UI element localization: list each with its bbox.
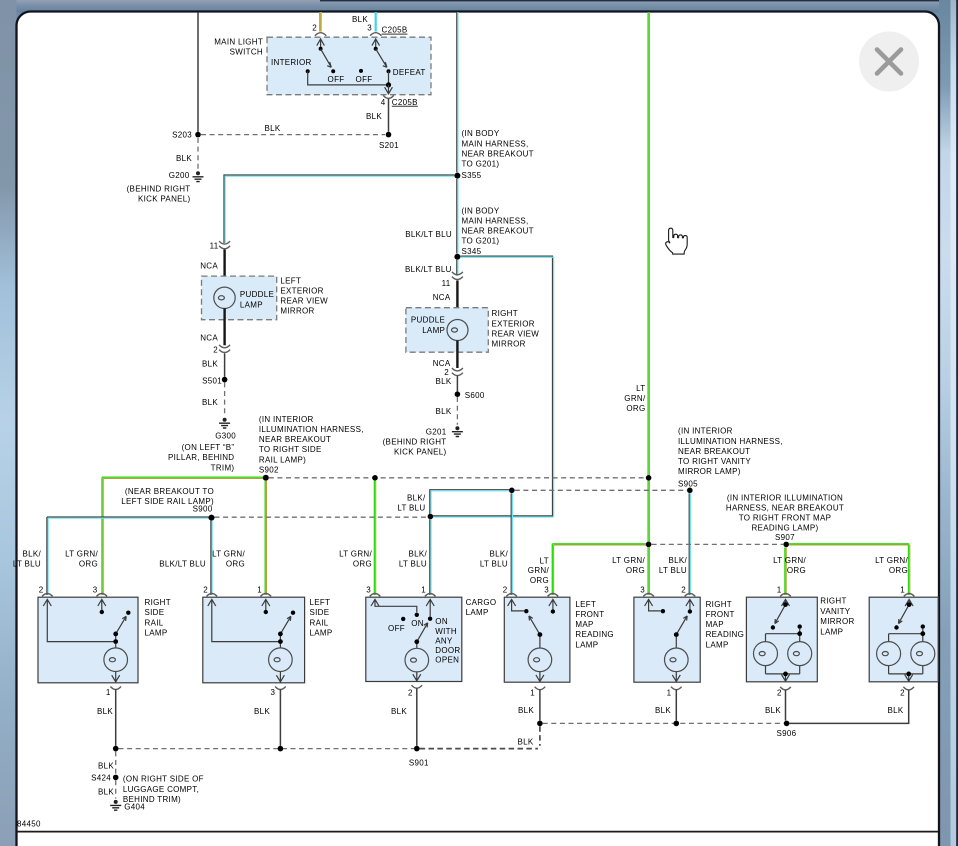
node S501: [222, 377, 228, 383]
svg-text:LAMP: LAMP: [820, 628, 843, 637]
svg-text:NEAR BREAKOUT: NEAR BREAKOUT: [462, 149, 534, 158]
top bar: [0, 0, 958, 13]
svg-text:NEAR BREAKOUT: NEAR BREAKOUT: [259, 435, 331, 444]
connector box5 pin1: [671, 687, 682, 690]
lamp left puddle: [214, 287, 235, 308]
svg-text:BLK/LT BLU: BLK/LT BLU: [159, 560, 206, 569]
right window edge: [956, 0, 958, 846]
svg-text:READING: READING: [706, 630, 745, 639]
svg-text:BLK: BLK: [98, 762, 114, 771]
svg-text:ORG: ORG: [787, 566, 806, 575]
svg-text:OPEN: OPEN: [435, 656, 459, 665]
wire BLK/LT BLU S905 down to box5 pin2: [688, 493, 690, 595]
svg-text:S345: S345: [462, 247, 482, 256]
svg-text:(BEHIND RIGHT: (BEHIND RIGHT: [127, 184, 191, 193]
svg-text:LT BLU: LT BLU: [397, 504, 425, 513]
svg-text:MIRROR: MIRROR: [820, 617, 854, 626]
connector box6 pin2: [780, 687, 791, 690]
svg-text:ILLUMINATION HARNESS,: ILLUMINATION HARNESS,: [678, 437, 783, 446]
svg-text:HARNESS, NEAR BREAKOUT: HARNESS, NEAR BREAKOUT: [726, 503, 844, 512]
svg-text:ORG: ORG: [353, 560, 372, 569]
svg-text:EXTERIOR: EXTERIOR: [280, 287, 323, 296]
svg-text:3: 3: [367, 23, 372, 32]
svg-text:(ON RIGHT SIDE OF: (ON RIGHT SIDE OF: [123, 775, 204, 784]
svg-text:PUDDLE: PUDDLE: [411, 315, 445, 324]
box2 left side rail lamp: [203, 597, 305, 683]
node S902: [263, 475, 269, 481]
wire dashed S900 to BLK/LT BLU node: [215, 516, 428, 518]
node cargo green tap: [372, 475, 378, 481]
connector box4 pin1: [535, 687, 546, 690]
svg-text:11: 11: [210, 242, 219, 251]
svg-text:BLK: BLK: [97, 707, 113, 716]
svg-text:1: 1: [106, 688, 111, 697]
svg-text:2: 2: [503, 586, 508, 595]
wire LT GRN/ORG S902 to left: [102, 477, 263, 595]
node box4 tap: [537, 721, 543, 727]
svg-text:S600: S600: [465, 391, 485, 400]
node S900: [209, 515, 215, 521]
svg-text:BLK: BLK: [518, 706, 534, 715]
svg-text:LT BLU: LT BLU: [480, 560, 508, 569]
svg-text:2: 2: [681, 586, 686, 595]
ground G201: [452, 426, 463, 436]
wire S203 to G200 dashed: [197, 138, 199, 170]
wire inside switch to pin 4: [308, 71, 389, 85]
node box5 tap: [674, 721, 680, 727]
wire dashed S501 to G300: [224, 382, 226, 415]
wire BLK/LT BLU down to box4 pin2: [510, 493, 512, 595]
lamps box7: [877, 642, 901, 666]
wire LT GRN/ORG S907 down to box6 pin1: [784, 547, 786, 595]
svg-text:BEHIND TRIM): BEHIND TRIM): [123, 795, 181, 804]
wire LT GRN/ORG S907 left segment: [552, 544, 646, 595]
svg-text:3: 3: [640, 586, 645, 595]
wire BLK/LT BLU S345 branch right and down: [460, 256, 552, 516]
node S345: [454, 254, 460, 260]
svg-text:(ON LEFT “B”: (ON LEFT “B”: [182, 443, 235, 452]
diagram bottom rule: [17, 831, 939, 833]
svg-text:2: 2: [777, 689, 782, 698]
switch DEFEAT: [372, 39, 380, 47]
node box1 tap: [113, 746, 119, 752]
svg-text:CARGO: CARGO: [466, 598, 497, 607]
lamp right puddle: [447, 320, 468, 341]
svg-text:KICK PANEL): KICK PANEL): [138, 194, 191, 203]
box6 right vanity mirror lamp: [746, 597, 817, 682]
svg-text:NEAR BREAKOUT: NEAR BREAKOUT: [678, 447, 750, 456]
svg-text:PILLAR, BEHIND: PILLAR, BEHIND: [168, 453, 234, 462]
wire dashed green trunk to S907: [652, 543, 784, 545]
connector box1 pin1: [110, 687, 121, 690]
node on green trunk at S907 line: [646, 542, 652, 548]
svg-text:FRONT: FRONT: [706, 610, 735, 619]
svg-text:LAMP: LAMP: [706, 640, 729, 649]
svg-text:READING: READING: [575, 630, 614, 639]
wire dashed S424 to G404: [115, 780, 117, 798]
svg-text:C205B: C205B: [392, 98, 418, 107]
svg-text:S501: S501: [202, 376, 222, 385]
inline connector pin 11 left mirror: [219, 241, 230, 249]
connector pin 2 right mirror: [452, 368, 463, 376]
svg-text:MAP: MAP: [706, 620, 724, 629]
right page strip: [939, 0, 951, 846]
svg-text:LT: LT: [636, 384, 645, 393]
svg-text:TRIM): TRIM): [211, 463, 235, 472]
svg-text:LAMP: LAMP: [466, 608, 489, 617]
node junction to S905: [509, 488, 515, 494]
node S905: [687, 488, 693, 494]
svg-text:LAMP: LAMP: [145, 629, 168, 638]
svg-text:(IN INTERIOR ILLUMINATION: (IN INTERIOR ILLUMINATION: [727, 493, 843, 502]
svg-text:BLK: BLK: [202, 360, 218, 369]
svg-text:RIGHT: RIGHT: [492, 309, 518, 318]
wire BLK box4 pin1 down: [539, 690, 541, 721]
svg-text:(IN BODY: (IN BODY: [462, 206, 500, 215]
node S203: [195, 132, 201, 138]
wire LT GRN/ORG trunk: [647, 12, 649, 544]
wire dashed S901 splice line: [119, 748, 415, 750]
svg-text:3: 3: [271, 688, 276, 697]
svg-text:BLK: BLK: [887, 706, 903, 715]
svg-text:S906: S906: [777, 729, 797, 738]
wire LT BLU into pin 3: [375, 12, 377, 32]
node S201: [386, 132, 392, 138]
wire dashed S600 to G201: [456, 397, 458, 425]
svg-text:C205B: C205B: [382, 26, 408, 35]
left puddle lamp box: [202, 276, 277, 320]
svg-text:REAR VIEW: REAR VIEW: [492, 329, 540, 338]
svg-text:LT GRN/: LT GRN/: [65, 550, 98, 559]
svg-text:RIGHT: RIGHT: [145, 598, 171, 607]
node on green trunk at S902 line: [646, 475, 652, 481]
svg-text:(IN BODY: (IN BODY: [462, 129, 500, 138]
wire green S902 down to box2 pin1: [264, 481, 266, 595]
wire BLK vertical to S203: [197, 12, 199, 132]
svg-text:ON: ON: [411, 619, 424, 628]
svg-text:LT BLU: LT BLU: [659, 566, 687, 575]
svg-text:VANITY: VANITY: [820, 607, 850, 616]
svg-text:READING LAMP): READING LAMP): [751, 524, 818, 533]
svg-text:2: 2: [39, 586, 44, 595]
node S901: [414, 746, 420, 752]
svg-text:TO RIGHT SIDE: TO RIGHT SIDE: [259, 445, 322, 454]
right puddle lamp box: [406, 308, 488, 353]
svg-text:GRN/: GRN/: [528, 566, 550, 575]
svg-text:BLK/: BLK/: [22, 550, 41, 559]
svg-text:REAR VIEW: REAR VIEW: [280, 297, 328, 306]
wire BLK/LT BLU node down to box3 pin1: [429, 519, 431, 595]
svg-text:ORG: ORG: [530, 576, 549, 585]
svg-text:4: 4: [381, 98, 386, 107]
svg-text:2: 2: [312, 23, 317, 32]
wire green down to box3 pin3: [373, 481, 375, 595]
wire into right puddle lamp: [456, 281, 458, 320]
wire BLK/LT BLU trunk top: [456, 12, 458, 172]
svg-text:ANY: ANY: [435, 636, 453, 645]
svg-text:WITH: WITH: [435, 627, 457, 636]
svg-text:MIRROR: MIRROR: [492, 340, 526, 349]
svg-text:2: 2: [408, 688, 413, 697]
lamp box5: [665, 648, 689, 672]
svg-text:BLK/LT BLU: BLK/LT BLU: [405, 265, 452, 274]
wire dashed S906 splice line: [543, 722, 784, 724]
wire dashed to S905: [515, 489, 687, 491]
inline connector pin 11 right mirror: [452, 272, 463, 280]
svg-text:S355: S355: [462, 171, 482, 180]
svg-text:NCA: NCA: [433, 359, 451, 368]
svg-text:BLK/: BLK/: [668, 556, 687, 565]
svg-text:BLK: BLK: [765, 706, 781, 715]
svg-text:RAIL: RAIL: [310, 618, 329, 627]
svg-text:BLK/: BLK/: [489, 550, 508, 559]
svg-text:11: 11: [442, 279, 451, 288]
svg-text:BLK: BLK: [517, 737, 533, 746]
svg-text:BLK: BLK: [391, 707, 407, 716]
svg-text:BLK: BLK: [352, 15, 368, 24]
connector box2 pin3: [275, 687, 286, 690]
lamp box4: [528, 648, 552, 672]
svg-text:(NEAR BREAKOUT TO: (NEAR BREAKOUT TO: [125, 487, 214, 496]
svg-text:KICK PANEL): KICK PANEL): [394, 448, 447, 457]
svg-text:RAIL LAMP): RAIL LAMP): [259, 455, 306, 464]
lamp box1: [104, 648, 128, 672]
svg-text:LT GRN/: LT GRN/: [875, 556, 908, 565]
wire teal S900 down to box2 pin2: [210, 521, 212, 595]
box1 right side rail lamp: [38, 597, 138, 683]
node S907: [783, 542, 789, 548]
wire dashed BLK down from box4 tap: [539, 726, 541, 746]
svg-text:BLK: BLK: [655, 706, 671, 715]
svg-text:DOOR: DOOR: [435, 646, 460, 655]
svg-text:RIGHT: RIGHT: [820, 597, 846, 606]
wire BLK/LT BLU S355 to left mirror: [224, 175, 454, 243]
svg-text:NCA: NCA: [200, 262, 218, 271]
main light switch box: [267, 37, 431, 94]
svg-text:TO RIGHT VANITY: TO RIGHT VANITY: [678, 457, 751, 466]
svg-text:LT BLU: LT BLU: [13, 560, 41, 569]
svg-text:NCA: NCA: [433, 293, 451, 302]
svg-text:3: 3: [93, 586, 98, 595]
svg-text:MAIN LIGHT: MAIN LIGHT: [214, 38, 263, 47]
svg-text:BLK/: BLK/: [407, 494, 426, 503]
connector box3 pin2: [412, 685, 423, 688]
svg-text:2: 2: [203, 586, 208, 595]
ground G200: [193, 171, 204, 181]
svg-text:LAMP: LAMP: [422, 326, 445, 335]
svg-text:1: 1: [530, 688, 535, 697]
svg-text:EXTERIOR: EXTERIOR: [492, 319, 535, 328]
wire BLK box2 pin3 down: [279, 690, 281, 746]
svg-text:LT BLU: LT BLU: [399, 560, 427, 569]
svg-text:2: 2: [213, 345, 218, 354]
svg-text:S424: S424: [91, 774, 111, 783]
svg-text:NEAR BREAKOUT: NEAR BREAKOUT: [462, 227, 534, 236]
svg-text:LUGGAGE COMPT,: LUGGAGE COMPT,: [123, 785, 199, 794]
svg-text:MAIN HARNESS,: MAIN HARNESS,: [462, 139, 529, 148]
svg-text:MAIN HARNESS,: MAIN HARNESS,: [462, 217, 529, 226]
svg-text:(BEHIND RIGHT: (BEHIND RIGHT: [383, 437, 447, 446]
wire BLK box7 pin2 down to S906 line: [789, 690, 908, 724]
wire BLK/LT BLU S900 to left: [47, 517, 209, 595]
node S906: [784, 721, 790, 727]
svg-text:(IN INTERIOR: (IN INTERIOR: [259, 415, 314, 424]
wire dashed S902 to green trunk: [269, 477, 645, 479]
svg-text:MAP: MAP: [575, 620, 593, 629]
svg-text:1: 1: [667, 688, 672, 697]
wire BLK box3 pin2 down: [416, 688, 418, 746]
svg-text:DEFEAT: DEFEAT: [393, 68, 426, 77]
svg-text:TO G201): TO G201): [462, 160, 500, 169]
svg-text:ORG: ORG: [626, 566, 645, 575]
svg-text:BLK: BLK: [264, 124, 280, 133]
svg-text:2: 2: [444, 368, 449, 377]
svg-text:LEFT: LEFT: [280, 276, 301, 285]
lamp box2: [269, 648, 293, 672]
svg-text:G201: G201: [426, 427, 447, 436]
connector pin 2 C205B: [315, 33, 326, 36]
svg-text:BLK: BLK: [435, 377, 451, 386]
contact and OFF position: [306, 69, 310, 73]
wire BLK box1 pin1 down: [115, 690, 117, 746]
svg-text:ON: ON: [435, 617, 448, 626]
svg-text:SWITCH: SWITCH: [230, 48, 263, 57]
wire BLK/LT BLU from S345 corner to node: [433, 515, 553, 517]
svg-text:S902: S902: [259, 465, 279, 474]
svg-text:OFF: OFF: [356, 75, 373, 84]
node S355: [454, 173, 460, 179]
svg-text:ORG: ORG: [226, 560, 245, 569]
left page strip: [0, 0, 17, 846]
svg-text:LT GRN/: LT GRN/: [773, 556, 806, 565]
lamp box3: [405, 648, 429, 672]
svg-text:GRN/: GRN/: [624, 394, 646, 403]
svg-text:SIDE: SIDE: [310, 608, 330, 617]
lamps box6: [754, 642, 778, 666]
wire out of left puddle lamp: [223, 308, 225, 345]
svg-text:RAIL: RAIL: [145, 618, 164, 627]
svg-text:BLK: BLK: [202, 398, 218, 407]
svg-text:S907: S907: [775, 533, 795, 542]
svg-text:BLK: BLK: [98, 788, 114, 797]
svg-text:ORG: ORG: [79, 560, 98, 569]
ground G300: [219, 418, 230, 428]
node S424: [113, 775, 119, 781]
svg-text:BLK: BLK: [254, 707, 270, 716]
svg-text:MIRROR LAMP): MIRROR LAMP): [678, 467, 741, 476]
close button: [859, 32, 919, 92]
wire BLK box5 pin1 down: [675, 690, 677, 721]
connector caps row: [42, 594, 107, 597]
wire BLK/LT BLU S345 down to right mirror: [456, 260, 458, 276]
wire into left puddle lamp: [223, 250, 225, 288]
svg-text:S901: S901: [409, 759, 429, 768]
svg-text:INTERIOR: INTERIOR: [271, 58, 312, 67]
box3 cargo lamp: [366, 597, 462, 681]
svg-text:MIRROR: MIRROR: [280, 307, 314, 316]
svg-text:NCA: NCA: [200, 334, 218, 343]
wire BLK/LT BLU S355 to S345: [456, 179, 458, 254]
svg-text:S905: S905: [678, 479, 698, 488]
svg-text:1: 1: [900, 586, 905, 595]
svg-text:BLK/LT BLU: BLK/LT BLU: [405, 230, 452, 239]
node box2 tap: [278, 746, 284, 752]
svg-text:3: 3: [544, 586, 549, 595]
wire dashed BLK box1 tap to S424: [115, 751, 117, 774]
svg-text:BLK: BLK: [366, 112, 382, 121]
svg-text:S203: S203: [172, 131, 192, 140]
svg-text:TO RIGHT FRONT MAP: TO RIGHT FRONT MAP: [739, 514, 832, 523]
svg-text:2: 2: [900, 689, 905, 698]
svg-text:LT: LT: [540, 557, 549, 566]
connector pin 2 left mirror: [219, 345, 230, 353]
svg-text:LAMP: LAMP: [240, 300, 263, 309]
svg-text:LEFT: LEFT: [575, 600, 596, 609]
svg-text:S900: S900: [193, 504, 213, 513]
svg-text:LAMP: LAMP: [310, 629, 333, 638]
svg-text:ORG: ORG: [889, 566, 908, 575]
svg-text:TO G201): TO G201): [462, 237, 500, 246]
mouse cursor: [666, 228, 688, 254]
svg-text:S201: S201: [379, 141, 399, 150]
wire S203 to S201 dashed splice: [201, 134, 385, 136]
wire ORG/LT GRN into pin 2: [319, 12, 321, 32]
connector box7 pin2: [903, 687, 914, 690]
svg-text:LT GRN/: LT GRN/: [612, 556, 645, 565]
svg-text:3: 3: [366, 586, 371, 595]
box4 left front map reading lamp: [504, 597, 570, 682]
svg-text:LAMP: LAMP: [575, 640, 598, 649]
svg-text:G300: G300: [215, 432, 236, 441]
node junction BLK/LT BLU: [428, 514, 434, 520]
wire BLK box6 pin2 down: [785, 690, 787, 721]
wire BLK/LT BLU node up and right to second node: [430, 490, 510, 514]
wire LT GRN/ORG S907 to box7 pin1: [789, 544, 908, 595]
svg-text:1: 1: [257, 586, 262, 595]
svg-text:BLK: BLK: [435, 407, 451, 416]
wire BLK to S600: [456, 376, 458, 392]
svg-text:BLK: BLK: [176, 154, 192, 163]
node S600: [455, 391, 461, 397]
svg-text:SIDE: SIDE: [145, 608, 165, 617]
wire green trunk down to box5 pin3: [647, 547, 649, 595]
svg-text:1: 1: [421, 586, 426, 595]
svg-text:G200: G200: [169, 171, 190, 180]
svg-text:1: 1: [777, 586, 782, 595]
svg-text:LEFT: LEFT: [310, 598, 331, 607]
svg-text:LT GRN/: LT GRN/: [339, 550, 372, 559]
svg-text:PUDDLE: PUDDLE: [240, 290, 274, 299]
box7 left vanity mirror lamp: [869, 597, 938, 682]
svg-text:RIGHT: RIGHT: [706, 600, 732, 609]
connector pin 4 C205B: [383, 95, 394, 98]
svg-text:ORG: ORG: [626, 404, 645, 413]
svg-text:(IN INTERIOR: (IN INTERIOR: [678, 427, 733, 436]
svg-text:84450: 84450: [17, 819, 41, 828]
svg-text:LT GRN/: LT GRN/: [212, 550, 245, 559]
svg-text:OFF: OFF: [328, 75, 345, 84]
wire BLK to S501: [224, 353, 226, 377]
wire out of right puddle lamp: [456, 341, 458, 368]
box5 right front map reading lamp: [634, 597, 700, 682]
svg-text:BLK/: BLK/: [408, 550, 427, 559]
svg-text:FRONT: FRONT: [575, 610, 604, 619]
wire BLK pin4 to S201: [388, 99, 390, 132]
ground G404: [110, 800, 121, 810]
connector pin 3 C205B: [370, 33, 381, 36]
svg-text:OFF: OFF: [388, 624, 405, 633]
svg-text:ILLUMINATION HARNESS,: ILLUMINATION HARNESS,: [259, 425, 364, 434]
